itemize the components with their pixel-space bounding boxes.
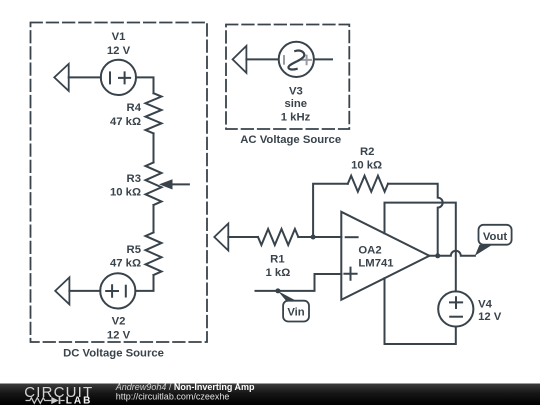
voltage source V3 (sine): [279, 42, 314, 77]
svg-text:R1: R1: [270, 254, 284, 266]
svg-text:R2: R2: [360, 146, 374, 158]
label OA2 LM741: [358, 245, 393, 270]
net flag arrow (V2 left terminal): [55, 277, 69, 304]
wire (R5 bottom to V2 right): [135, 275, 153, 291]
wire (arrow to V3): [246, 58, 278, 60]
resistor R1: [258, 229, 298, 245]
resistor R2: [348, 176, 388, 192]
svg-text:sine: sine: [284, 98, 307, 110]
voltage source V4: [438, 291, 473, 326]
wire (R3 to R5): [153, 205, 155, 232]
junction (inverting input node): [311, 235, 316, 240]
wire (R1 to inverting input): [298, 236, 341, 238]
svg-text:12 V: 12 V: [478, 311, 502, 323]
wire (V- supply: bottom down and right to V4 bottom): [385, 278, 456, 344]
svg-text:OA2: OA2: [358, 245, 381, 257]
wire (V2 left to arrow): [69, 290, 100, 292]
label AC Voltage Source: [240, 134, 341, 146]
footer title text: [115, 382, 255, 402]
label R4 47 kOhm: [110, 102, 142, 128]
resistor R5: [146, 232, 162, 275]
wire (R4 to R3): [153, 133, 155, 162]
op-amp OA2: [341, 212, 429, 300]
net flag arrow (V3 left terminal): [233, 46, 247, 73]
label V3 sine 1 kHz: [281, 86, 311, 124]
resistor R4: [146, 93, 162, 133]
label V4 12 V: [478, 299, 502, 324]
svg-text:12 V: 12 V: [107, 329, 131, 341]
potentiometer R3: [146, 162, 189, 205]
svg-text:47 kΩ: 47 kΩ: [110, 258, 141, 270]
wire (V+ supply: hypotenuse up and right to V4 top): [385, 203, 456, 292]
net flag arrow (R1 input): [214, 224, 228, 251]
wire (R2 right, down to output node, with hop): [388, 184, 443, 256]
svg-text:V4: V4: [478, 299, 493, 311]
svg-text:LAB: LAB: [66, 396, 93, 405]
wire (V3 right stub): [314, 58, 332, 60]
svg-text:R5: R5: [127, 244, 141, 256]
wire (non-inverting input to Vin stub): [256, 274, 342, 291]
voltage source V2: [100, 273, 135, 308]
wire (arrow to V1): [69, 76, 101, 78]
label R2 10 kOhm: [351, 146, 382, 171]
wire (output: op-amp tip to Vout, hop over supply wire): [429, 251, 475, 256]
svg-text:1 kHz: 1 kHz: [281, 112, 311, 124]
svg-text:V3: V3: [289, 86, 303, 98]
svg-text:1 kΩ: 1 kΩ: [266, 267, 291, 279]
svg-text:V2: V2: [112, 316, 126, 328]
net flag Vout: [475, 225, 512, 256]
svg-text:LM741: LM741: [358, 258, 393, 270]
svg-text:Vout: Vout: [483, 231, 507, 243]
voltage source V1: [101, 60, 136, 95]
svg-text:Andrew9oh4 / Non-Inverting Amp: Andrew9oh4 / Non-Inverting Amp: [115, 382, 255, 392]
label V1 12 V: [107, 31, 131, 57]
junction (output node): [435, 253, 440, 258]
svg-text:47 kΩ: 47 kΩ: [110, 116, 141, 128]
svg-text:12 V: 12 V: [107, 45, 131, 57]
svg-text:V1: V1: [112, 31, 126, 43]
svg-text:R3: R3: [127, 173, 141, 185]
wire (arrow to R1): [228, 236, 258, 238]
wire (V1 right to R4 top): [136, 77, 154, 93]
svg-text:R4: R4: [127, 102, 142, 114]
net flag Vin: [278, 291, 309, 322]
label R1 1 kOhm: [266, 254, 291, 279]
label R3 10 kOhm: [110, 173, 141, 199]
svg-text:AC Voltage Source: AC Voltage Source: [240, 134, 341, 146]
wire (junction up to R2 left): [313, 184, 348, 237]
svg-text:10 kΩ: 10 kΩ: [351, 159, 382, 171]
label V2 12 V: [107, 316, 131, 342]
DC Voltage Source enclosure (dashed box): [31, 23, 208, 343]
AC Voltage Source enclosure (dashed box): [226, 25, 349, 130]
junction (Vin node): [275, 288, 280, 293]
CircuitLab logo: [24, 384, 93, 405]
svg-text:Vin: Vin: [287, 307, 304, 319]
net flag arrow (V1 left terminal): [54, 64, 68, 91]
svg-text:http://circuitlab.com/czeexhe: http://circuitlab.com/czeexhe: [116, 391, 230, 401]
label DC Voltage Source: [63, 347, 164, 359]
label R5 47 kOhm: [110, 244, 141, 270]
svg-text:10 kΩ: 10 kΩ: [110, 187, 141, 199]
svg-text:DC Voltage Source: DC Voltage Source: [63, 347, 164, 359]
